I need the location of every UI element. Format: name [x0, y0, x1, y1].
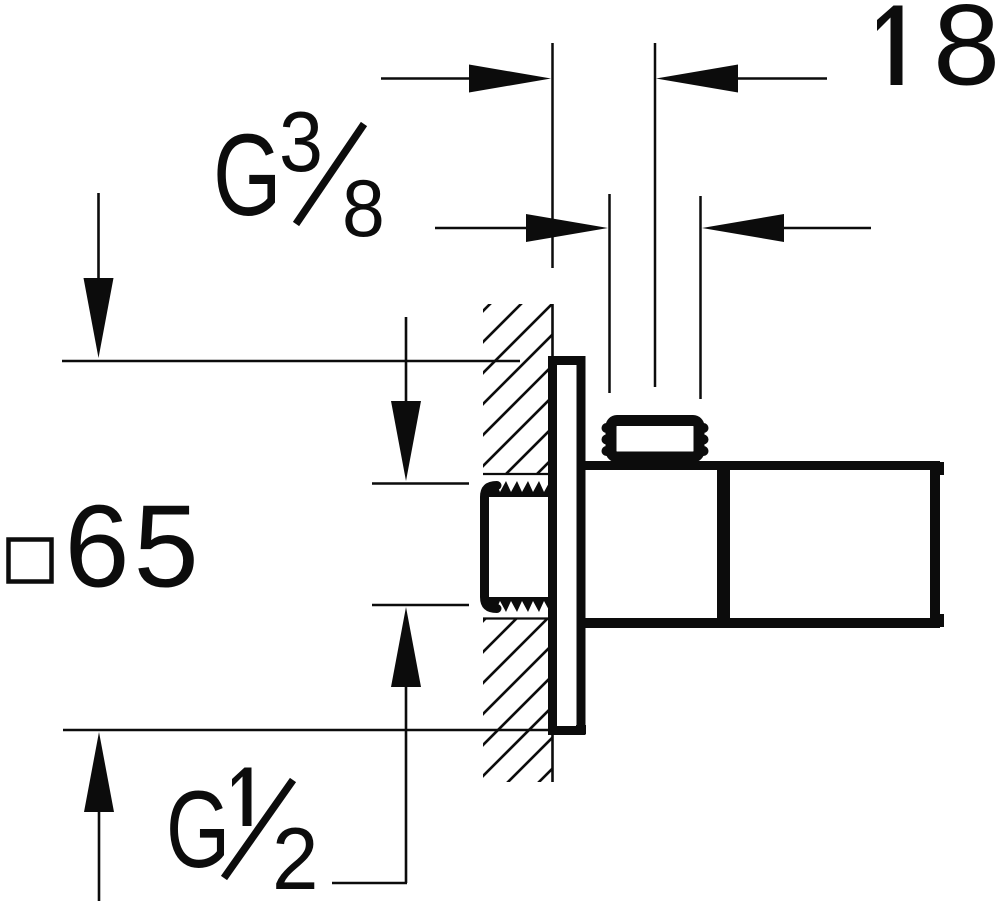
dim G1/2: lower arrow shaft — [405, 683, 408, 883]
dim G1/2: lower arrowhead (up) — [391, 607, 421, 687]
svg-text:2: 2 — [272, 810, 318, 908]
flange bottom-right step — [576, 725, 586, 734]
dim G3/8: right arrowhead — [702, 214, 784, 242]
dim G3/8: right dimension line — [714, 227, 871, 230]
valve body right edge — [930, 461, 940, 628]
label square 65 — [9, 481, 203, 612]
valve body bottom-right corner step — [937, 614, 944, 627]
wall opening bottom line — [483, 617, 552, 619]
wall opening top line — [483, 473, 552, 475]
dim 18: extension line at wall face x=552 — [551, 43, 554, 268]
dim 18: right dimension line — [668, 77, 827, 80]
dim G1/2: tick at nipple bottom — [372, 604, 469, 607]
dim G3/8: right tick extension — [699, 196, 702, 399]
svg-text:65: 65 — [65, 481, 203, 612]
dim G3/8: left arrowhead — [526, 214, 608, 242]
valve body bottom edge — [584, 618, 939, 628]
nipple bottom thread zigzag — [489, 597, 552, 612]
flange top bar — [548, 356, 585, 364]
extension line flange top (for square-65 dim) — [62, 360, 520, 363]
dim square65: lower arrow shaft — [98, 808, 101, 901]
extension line flange bottom (for square-65 dim) — [63, 729, 549, 732]
label G3/8 — [213, 95, 385, 253]
wall edge line — [551, 304, 554, 782]
dim square65: lower arrowhead (up) — [84, 732, 114, 812]
dim 18: left dimension line — [381, 77, 540, 80]
label G1/2 — [166, 767, 318, 908]
dim square65: upper arrow shaft — [97, 193, 100, 285]
valve body top edge — [584, 461, 939, 470]
nipple left edge — [485, 486, 498, 609]
dim G3/8: left tick extension — [608, 194, 611, 393]
flange plate — [553, 361, 582, 731]
dim G1/2: tick at nipple top — [372, 482, 469, 485]
nipple top thread zigzag — [489, 481, 552, 497]
valve body top-right corner step — [937, 462, 944, 475]
svg-text:G: G — [213, 110, 282, 239]
dim G1/2: upper arrowhead (down) — [391, 401, 421, 481]
svg-text:8: 8 — [342, 162, 385, 253]
dim G1/2: upper arrow shaft — [405, 317, 408, 408]
threaded nipple G1/2 white body — [482, 479, 552, 615]
valve body divider — [717, 462, 730, 629]
svg-text:8: 8 — [933, 0, 1000, 109]
dim 18: extension line at valve axis x=655 — [654, 43, 657, 387]
dim square65: upper arrowhead (down) — [84, 278, 114, 358]
dim 18: right arrowhead — [656, 65, 738, 93]
knurled cap (G3/8 outlet) — [602, 421, 709, 458]
label 18 — [877, 6, 903, 86]
valve body — [584, 461, 944, 629]
svg-text:G: G — [166, 767, 230, 890]
svg-text:3: 3 — [279, 95, 323, 189]
dim G1/2: leader to label — [332, 882, 407, 885]
dim G3/8: left dimension line — [435, 227, 597, 230]
dim 18: left arrowhead — [469, 65, 551, 93]
